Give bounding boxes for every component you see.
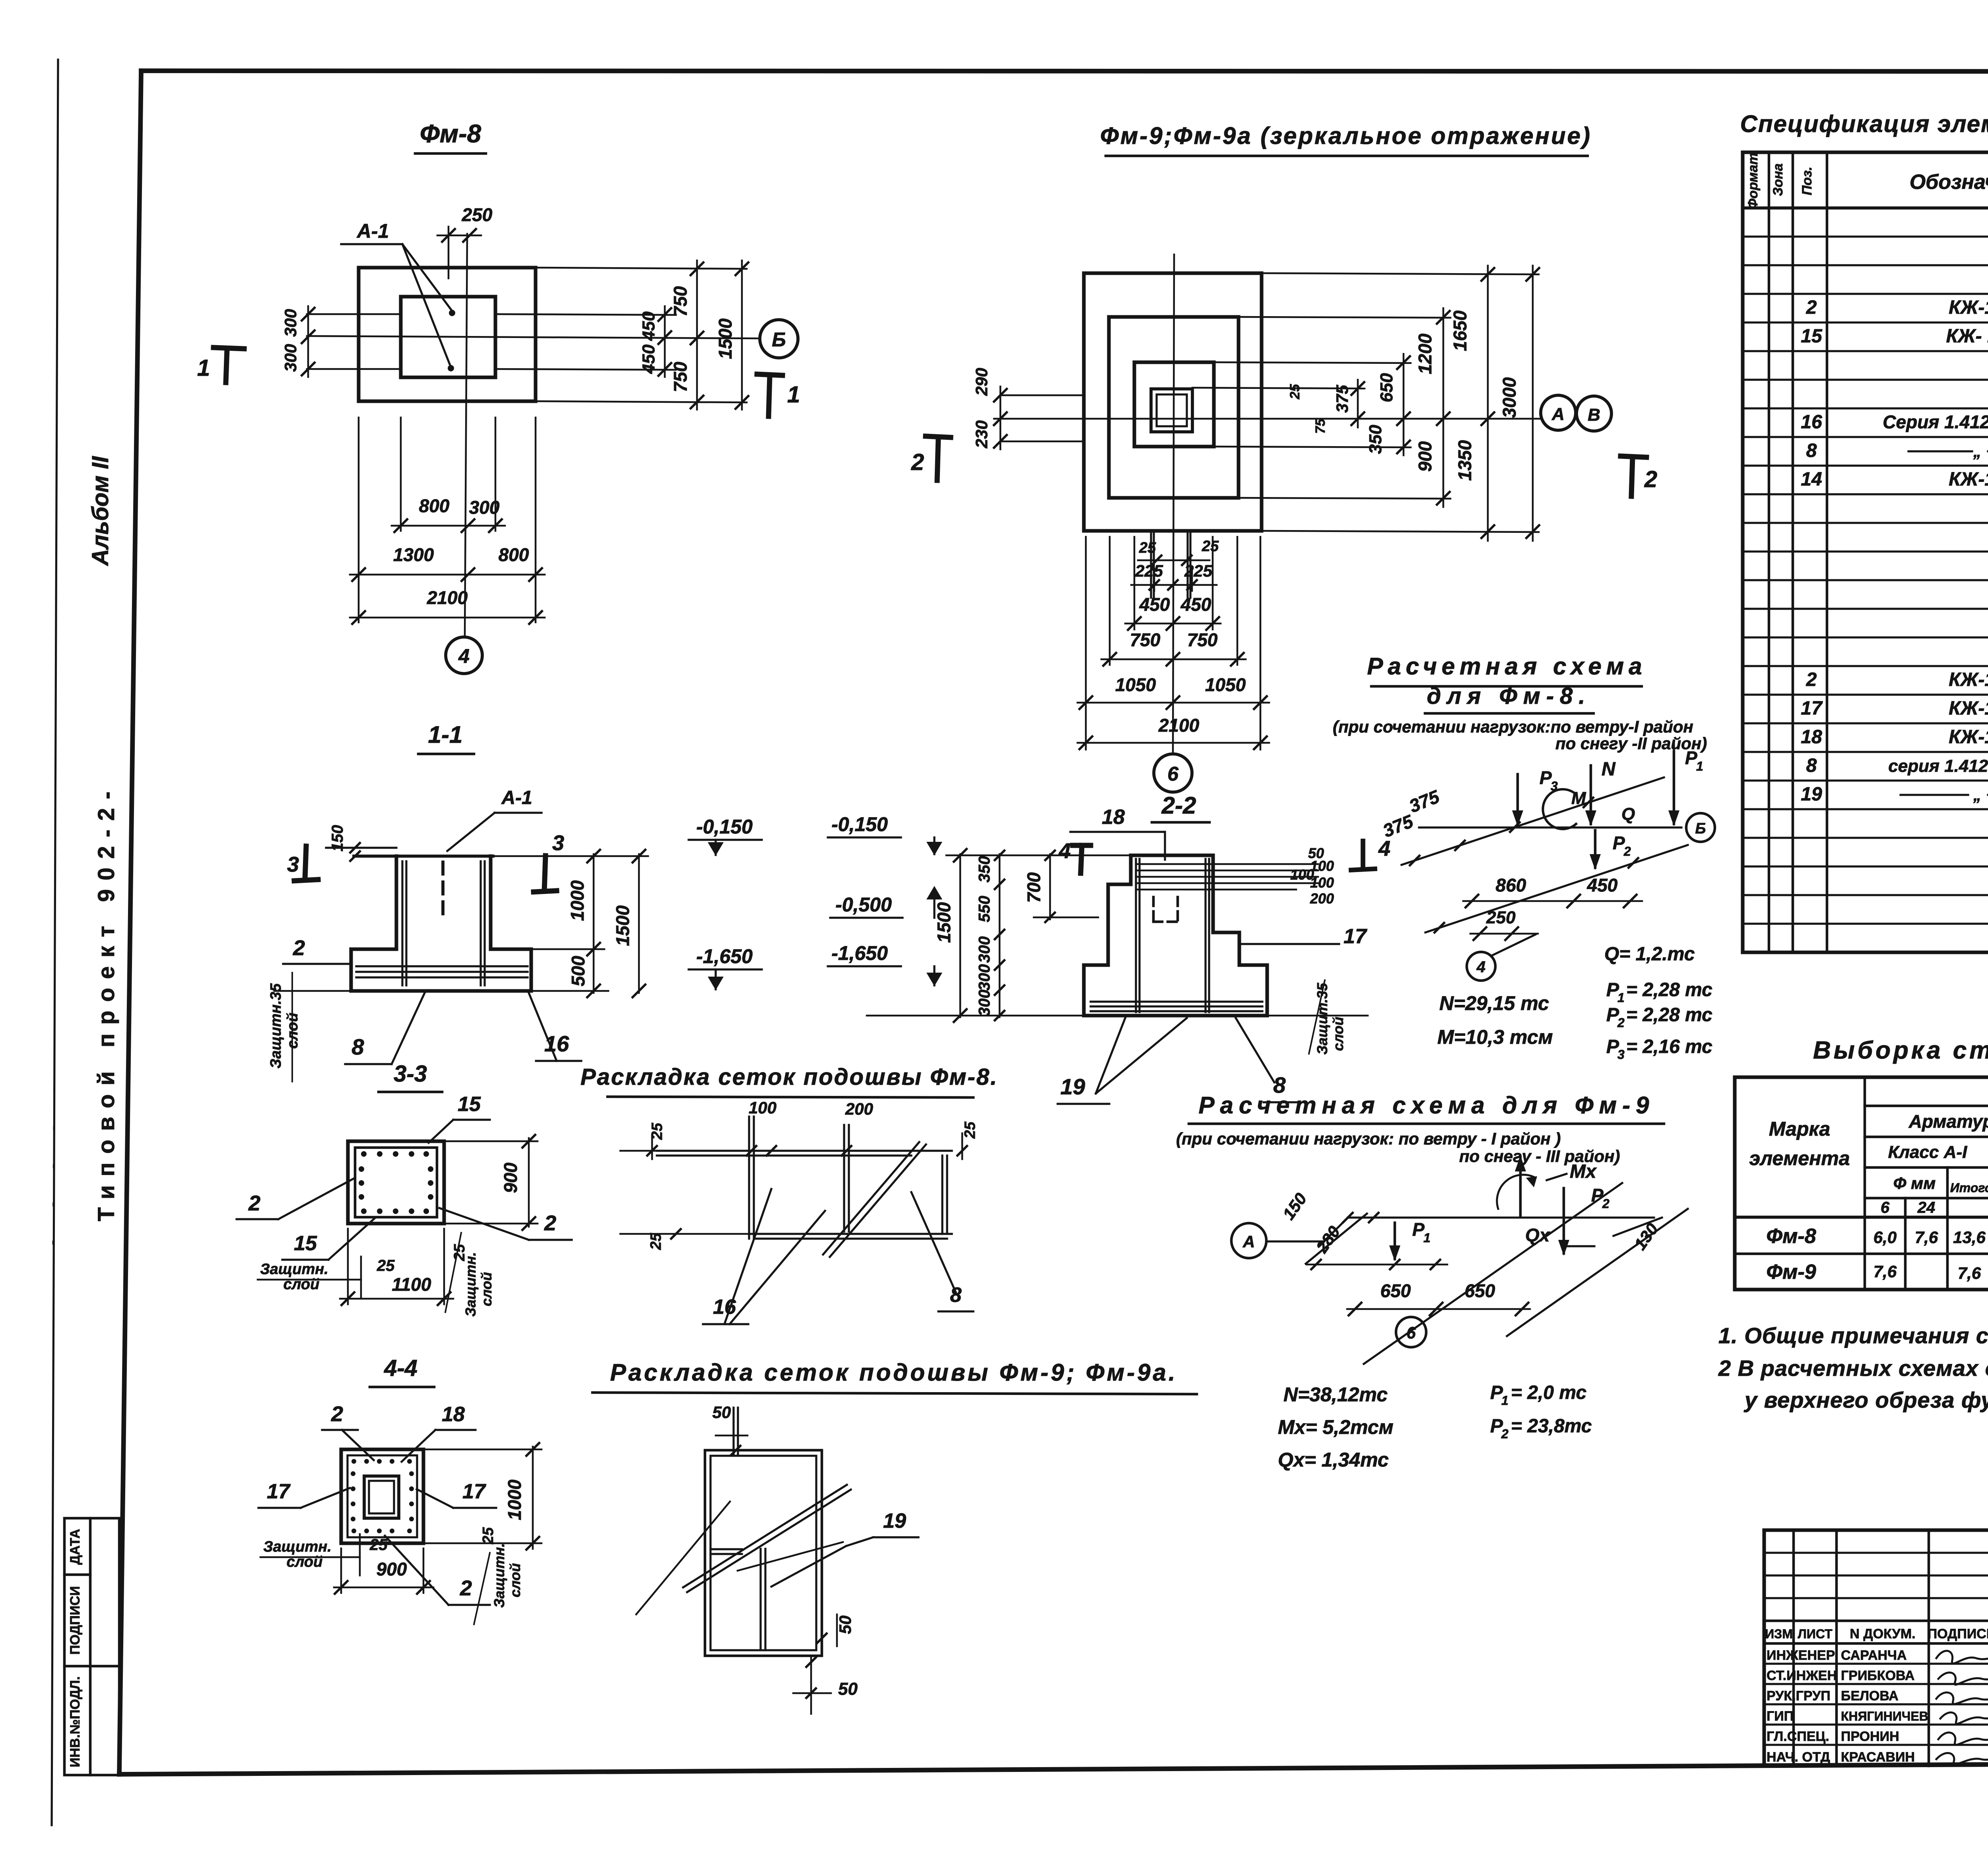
- calc scheme Fm-8 axis circle B: [1686, 813, 1715, 842]
- svg-text:1: 1: [197, 355, 210, 381]
- calc scheme Fm-8 lower diagonal: [1425, 845, 1688, 932]
- svg-text:N=29,15 тс: N=29,15 тс: [1439, 992, 1549, 1014]
- calc scheme Fm-9 force N: [1519, 1157, 1522, 1216]
- svg-text:225: 225: [1135, 561, 1163, 580]
- calc scheme Fm-9 force P1: [1394, 1223, 1396, 1259]
- Fm-8 plan outer footing rectangle: [359, 268, 536, 401]
- svg-text:ПОДПИСИ: ПОДПИСИ: [68, 1586, 83, 1655]
- calc scheme Fm-9 axis circle 6: [1396, 1317, 1426, 1347]
- svg-text:450: 450: [639, 311, 658, 341]
- svg-text:ИНВ.№ПОДЛ.: ИНВ.№ПОДЛ.: [68, 1676, 83, 1768]
- svg-text:100: 100: [1310, 874, 1334, 891]
- svg-text:450: 450: [1587, 875, 1618, 895]
- svg-text:КЖ-13: КЖ-13: [1949, 698, 1988, 719]
- calc scheme Fm-9 long diagonal through 6: [1364, 1183, 1622, 1364]
- calc scheme Fm-9 dim line under P1: [1307, 1264, 1447, 1266]
- svg-text:1-1: 1-1: [428, 721, 463, 748]
- section 1-1 base ground line: [274, 990, 351, 992]
- svg-text:КЖ-13: КЖ-13: [1949, 297, 1988, 318]
- svg-text:ПОДПИСЬ: ПОДПИСЬ: [1928, 1626, 1988, 1641]
- svg-text:Раскладка сеток подошвы Фм-9;: Раскладка сеток подошвы Фм-9; Фм-9а.: [610, 1359, 1177, 1386]
- svg-text:2-2: 2-2: [1161, 792, 1196, 819]
- svg-text:Q: Q: [1621, 804, 1635, 824]
- section 1-1 base mesh lines: [356, 965, 528, 967]
- svg-text:у верхнего обреза фундаменто: у верхнего обреза фундаментов.: [1743, 1387, 1988, 1412]
- svg-text:75: 75: [1313, 418, 1328, 434]
- section 2-2 anchor dashed lines: [1152, 897, 1155, 922]
- svg-text:Серия 1.412-1 Вып. II: Серия 1.412-1 Вып. II: [1883, 412, 1988, 432]
- svg-text:слой: слой: [478, 1272, 495, 1306]
- svg-text:3: 3: [1617, 1047, 1625, 1062]
- Fm-9 plan axis circle A: [1541, 395, 1576, 430]
- calc scheme Fm-8 axis circle 4: [1467, 952, 1495, 981]
- spec table verticals: [1741, 152, 1744, 952]
- svg-text:слой: слой: [287, 1554, 323, 1570]
- calc scheme Fm-8 force P2: [1594, 830, 1597, 868]
- inventory stamp divider horizontal 2: [64, 1665, 119, 1668]
- Fm-9 plan dim row 750 750: [1101, 658, 1246, 660]
- mesh layout Fm-9 main diagonal double: [683, 1485, 847, 1587]
- svg-text:800: 800: [419, 495, 450, 516]
- svg-text:P: P: [1613, 833, 1625, 853]
- svg-text:2: 2: [248, 1191, 260, 1215]
- calc scheme Fm-8 upper diagonal: [1402, 777, 1664, 865]
- svg-text:4: 4: [1476, 958, 1485, 976]
- section 3-3 outer square: [348, 1141, 444, 1224]
- svg-text:= 2,16 тс: = 2,16 тс: [1626, 1036, 1712, 1057]
- svg-text:N ДОКУМ.: N ДОКУМ.: [1850, 1626, 1915, 1641]
- svg-text:1: 1: [1501, 1393, 1508, 1408]
- svg-text:900: 900: [377, 1559, 407, 1579]
- section 2-2 top mesh lines: [1137, 863, 1318, 865]
- svg-text:14: 14: [1801, 469, 1822, 490]
- Fm-9 plan axis circle 6: [1154, 754, 1192, 792]
- steel table verticals: [1864, 1077, 1866, 1290]
- Fm-9 plan dim line 1200 900: [1442, 308, 1444, 507]
- svg-text:17: 17: [1801, 698, 1823, 719]
- svg-text:750: 750: [1130, 629, 1161, 650]
- svg-text:КЖ- 13: КЖ- 13: [1946, 326, 1988, 347]
- inventory stamp box: [64, 1518, 119, 1775]
- Fm-9 plan dim line 650 350: [1403, 354, 1405, 455]
- mesh layout Fm-9 thin diagonal lower: [738, 1542, 843, 1571]
- mesh layout Fm-8 right bar: [941, 1156, 943, 1234]
- section 4-4 dim 1000: [532, 1447, 534, 1549]
- title block signature row lines: [1764, 1663, 1988, 1665]
- section 1-1 ground line left: [326, 847, 396, 849]
- svg-text:18: 18: [1801, 726, 1822, 748]
- mesh layout Fm-8 bottom chord double line: [749, 1233, 952, 1235]
- Fm-9 plan mesh bars below plan: [1150, 531, 1152, 598]
- svg-text:300: 300: [976, 990, 993, 1016]
- Fm-8 plan top dim 250: [437, 235, 481, 237]
- svg-text:1: 1: [1617, 991, 1625, 1005]
- section 2-2 dim chain 350 550 300 300 300: [999, 854, 1001, 1017]
- svg-text:слой: слой: [507, 1563, 523, 1597]
- svg-text:19: 19: [1060, 1074, 1085, 1099]
- svg-text:Фм-8: Фм-8: [1766, 1225, 1816, 1248]
- svg-text:1: 1: [1696, 759, 1703, 773]
- section 2-2 dim line 1500: [959, 854, 961, 1017]
- svg-text:16: 16: [1801, 412, 1822, 433]
- svg-text:750: 750: [670, 361, 691, 392]
- svg-text:НАЧ. ОТД: НАЧ. ОТД: [1767, 1750, 1830, 1765]
- svg-text:50: 50: [836, 1616, 854, 1634]
- section 3-3 inner square: [355, 1148, 437, 1217]
- svg-text:Qх= 1,34тс: Qх= 1,34тс: [1278, 1449, 1389, 1471]
- svg-text:для Фм-8.: для Фм-8.: [1427, 683, 1591, 709]
- svg-text:Ф мм: Ф мм: [1893, 1174, 1936, 1193]
- svg-text:= 2,0 тс: = 2,0 тс: [1511, 1382, 1586, 1403]
- svg-text:7,6: 7,6: [1915, 1228, 1938, 1247]
- svg-text:25: 25: [1139, 540, 1156, 556]
- svg-text:В: В: [1588, 405, 1600, 425]
- svg-text:8: 8: [351, 1034, 364, 1059]
- title block signatures: [1936, 1651, 1988, 1663]
- svg-text:Марка: Марка: [1769, 1118, 1830, 1140]
- calc scheme Fm-8 moment M arc: [1543, 789, 1576, 829]
- svg-text:2: 2: [331, 1402, 343, 1426]
- svg-text:18: 18: [442, 1403, 465, 1426]
- svg-text:700: 700: [1023, 872, 1044, 903]
- svg-text:4-4: 4-4: [384, 1355, 417, 1381]
- svg-text:1: 1: [1423, 1231, 1431, 1245]
- svg-text:2: 2: [911, 449, 924, 475]
- svg-text:ГЛ.СПЕЦ.: ГЛ.СПЕЦ.: [1767, 1729, 1829, 1744]
- svg-text:2: 2: [1617, 1016, 1625, 1030]
- svg-text:-1,650: -1,650: [696, 945, 753, 967]
- svg-text:8: 8: [950, 1284, 962, 1307]
- svg-text:Фм-8: Фм-8: [420, 119, 481, 148]
- Fm-9 plan title underline: [1106, 155, 1588, 157]
- Fm-8 plan anchor extension line upper: [307, 313, 402, 315]
- Fm-8 plan anchor extension line lower: [307, 368, 402, 370]
- svg-text:N=38,12тс: N=38,12тс: [1283, 1383, 1388, 1406]
- Fm-9 plan right extension lines: [1262, 273, 1539, 274]
- svg-text:2: 2: [544, 1211, 556, 1235]
- svg-text:300: 300: [976, 964, 993, 991]
- section 2-2 dim 700: [1049, 854, 1051, 919]
- spec table bottom border: [1743, 950, 1988, 954]
- Fm-9 plan left extension lines: [1002, 394, 1084, 396]
- Fm-8 plan right extension lines: [536, 268, 747, 269]
- Fm-9 plan middle step rectangle: [1109, 317, 1239, 498]
- spec table row lines: [1743, 235, 1988, 237]
- svg-text:6: 6: [1881, 1199, 1890, 1216]
- svg-text:1000: 1000: [504, 1479, 525, 1520]
- svg-text:25: 25: [480, 1527, 497, 1544]
- svg-text:300: 300: [281, 344, 300, 372]
- section 3-3 rebar dots: [361, 1151, 367, 1157]
- svg-text:4: 4: [458, 645, 470, 667]
- svg-text:М=10,3 тсм: М=10,3 тсм: [1437, 1026, 1553, 1048]
- svg-text:БЕЛОВА: БЕЛОВА: [1841, 1688, 1899, 1703]
- section 1-1 top of column line: [354, 855, 493, 858]
- svg-text:17: 17: [1343, 925, 1367, 948]
- Fm-8 plan dim line 1500: [741, 260, 743, 410]
- svg-text:Защитн.: Защитн.: [260, 1261, 328, 1278]
- svg-text:Расчетная схема для Фм-9: Расчетная схема для Фм-9: [1198, 1092, 1654, 1119]
- mesh layout Fm-9 left small lines: [711, 1548, 742, 1550]
- svg-text:А-1: А-1: [501, 787, 532, 808]
- svg-text:650: 650: [1377, 373, 1396, 402]
- steel table outer border: [1735, 1077, 1988, 1290]
- svg-text:ЛИСТ: ЛИСТ: [1798, 1627, 1833, 1641]
- svg-text:1. Общие примечания см. на: 1. Общие примечания см. на листе КЖ-6.: [1718, 1323, 1988, 1348]
- svg-text:серия 1.412-1 Вып. II: серия 1.412-1 Вып. II: [1888, 756, 1988, 776]
- svg-text:24: 24: [1917, 1199, 1936, 1216]
- Fm-9 plan dim row 2100: [1077, 742, 1269, 744]
- mesh layout Fm-8 top chord double line: [657, 1150, 952, 1152]
- Fm-8 plan anchor leader lines: [402, 244, 452, 311]
- svg-text:ИНЖЕНЕР: ИНЖЕНЕР: [1767, 1648, 1835, 1663]
- svg-text:1650: 1650: [1450, 310, 1470, 351]
- svg-text:2: 2: [460, 1576, 472, 1600]
- svg-text:КЖ-13: КЖ-13: [1949, 726, 1988, 748]
- svg-text:2: 2: [1644, 466, 1657, 492]
- svg-text:6: 6: [1167, 763, 1179, 785]
- svg-text:2: 2: [1806, 297, 1817, 318]
- svg-text:ИЗМ: ИЗМ: [1765, 1627, 1793, 1641]
- svg-text:1100: 1100: [392, 1274, 431, 1295]
- svg-text:Б: Б: [772, 328, 786, 351]
- Fm-8 plan dim line 450 450: [664, 306, 666, 377]
- svg-text:1200: 1200: [1415, 333, 1435, 374]
- svg-text:7,6: 7,6: [1958, 1264, 1981, 1282]
- svg-text:6: 6: [1406, 1323, 1416, 1342]
- svg-text:4: 4: [1058, 839, 1071, 863]
- svg-text:= 2,28 тс: = 2,28 тс: [1626, 1004, 1712, 1026]
- calc scheme Fm-9 moment Mx arc: [1497, 1175, 1536, 1209]
- svg-text:Выборка стали на один элемент.: Выборка стали на один элемент.: [1813, 1037, 1988, 1064]
- svg-text:2: 2: [1623, 844, 1631, 859]
- sheet frame top border: [141, 71, 1988, 72]
- svg-text:500: 500: [568, 956, 588, 986]
- Fm-8 plan vertical axis: [465, 234, 467, 636]
- Fm-9 plan vertical axis: [1173, 254, 1174, 754]
- svg-text:Защитн.: Защитн.: [491, 1543, 507, 1608]
- svg-text:25: 25: [377, 1257, 395, 1274]
- svg-text:P: P: [1685, 748, 1697, 768]
- svg-text:КЖ-13: КЖ-13: [1949, 669, 1988, 690]
- svg-text:P: P: [1540, 767, 1552, 788]
- Fm-9 plan outer footing rectangle: [1084, 273, 1262, 531]
- svg-text:ГИП: ГИП: [1767, 1709, 1794, 1724]
- svg-text:„: „: [1973, 443, 1981, 460]
- svg-text:6,0: 6,0: [1873, 1228, 1897, 1247]
- mesh layout Fm-8 middle bar: [843, 1125, 845, 1231]
- Fm-8 plan title underline: [415, 152, 486, 155]
- svg-text:900: 900: [500, 1162, 521, 1193]
- svg-text:300: 300: [469, 497, 500, 518]
- perforation dashes left edge: [53, 974, 55, 1272]
- svg-text:25: 25: [962, 1121, 978, 1139]
- svg-text:ДАТА: ДАТА: [68, 1529, 83, 1565]
- Fm-8 plan column rectangle: [401, 297, 495, 377]
- section 4-4 column box inner: [369, 1481, 394, 1513]
- section 1-1 anchor dashed line: [441, 862, 445, 914]
- svg-text:А: А: [1551, 404, 1565, 424]
- steel table horizontals: [1865, 1105, 1988, 1107]
- svg-text:25: 25: [369, 1536, 388, 1554]
- svg-text:Альбом II: Альбом II: [87, 456, 113, 567]
- spec table top border: [1743, 150, 1988, 154]
- Fm-8 plan bottom extension lines: [400, 418, 402, 531]
- svg-text:3000: 3000: [1499, 377, 1520, 418]
- mesh layout Fm-8 left ext lines: [620, 1150, 657, 1152]
- Fm-9 plan column box outer: [1151, 389, 1192, 432]
- svg-text:2: 2: [1602, 1197, 1609, 1211]
- svg-text:Мх: Мх: [1570, 1161, 1597, 1182]
- svg-text:1000: 1000: [567, 880, 588, 921]
- svg-text:19: 19: [1801, 784, 1822, 805]
- section 1-1 dim line 1000 500: [593, 854, 595, 993]
- svg-text:750: 750: [670, 286, 691, 317]
- svg-text:250: 250: [1486, 908, 1516, 927]
- svg-text:8: 8: [1806, 755, 1817, 776]
- inventory stamp divider horizontal 1: [64, 1573, 90, 1576]
- Fm-8 plan horizontal axis: [307, 336, 757, 338]
- svg-text:860: 860: [1496, 875, 1526, 895]
- svg-text:Арматурная сталь ГОСТ 5781 - 7: Арматурная сталь ГОСТ 5781 - 75: [1908, 1111, 1988, 1132]
- calc scheme Fm-9 axis circle A: [1231, 1223, 1266, 1258]
- svg-text:слой: слой: [1330, 1017, 1346, 1051]
- section 2-2 flange mesh lines: [1091, 1000, 1262, 1002]
- section 1-1 column shaft left edge: [394, 856, 398, 949]
- svg-text:50: 50: [712, 1403, 731, 1422]
- svg-text:450: 450: [1139, 594, 1170, 615]
- mesh layout Fm-8 left bar: [748, 1117, 750, 1239]
- Fm-9 plan dim row 25 25: [1138, 559, 1209, 561]
- Fm-8 plan dim line 750 750: [696, 260, 698, 410]
- svg-text:1500: 1500: [715, 318, 736, 359]
- svg-text:900: 900: [1415, 441, 1435, 472]
- section 3-3 dim 900: [528, 1138, 530, 1227]
- title block vertical izm: [1792, 1530, 1795, 1766]
- svg-text:Б: Б: [1695, 820, 1706, 837]
- svg-text:Защитн.: Защитн.: [263, 1538, 332, 1555]
- calc scheme Fm-8 force P3: [1516, 774, 1519, 824]
- calc scheme Fm-9 right diagonal: [1507, 1209, 1688, 1336]
- section 1-1 rebar lines left: [401, 861, 403, 985]
- svg-text:290: 290: [972, 368, 991, 396]
- svg-text:РУК.ГРУП: РУК.ГРУП: [1767, 1688, 1831, 1703]
- svg-text:Итого: Итого: [1950, 1181, 1988, 1195]
- svg-text:Поз.: Поз.: [1800, 167, 1815, 195]
- svg-text:25: 25: [1202, 538, 1219, 555]
- Fm-9 plan dim line 3000: [1532, 266, 1534, 541]
- svg-text:650: 650: [1465, 1280, 1495, 1301]
- section 2-2 vertical rebars: [1135, 859, 1137, 1012]
- svg-text:P: P: [1412, 1219, 1425, 1240]
- calc scheme Fm-8 main axis to B: [1419, 826, 1681, 828]
- svg-text:-0,500: -0,500: [835, 894, 892, 916]
- svg-text:1500: 1500: [612, 905, 633, 946]
- calc scheme Fm-8 dim 250: [1470, 933, 1538, 935]
- svg-text:„: „: [1973, 787, 1981, 804]
- sheet frame bottom border: [119, 1762, 1988, 1774]
- svg-text:3: 3: [287, 853, 299, 876]
- section 2-2 base level line: [867, 1015, 1084, 1017]
- svg-text:КРАСАВИН: КРАСАВИН: [1841, 1750, 1915, 1765]
- svg-text:Формат: Формат: [1745, 153, 1761, 209]
- svg-text:375: 375: [1333, 385, 1351, 413]
- svg-text:2: 2: [1501, 1427, 1508, 1441]
- mesh layout Fm-9 center bar: [759, 1549, 761, 1650]
- svg-text:Фм-9;Фм-9а (зеркальное отражен: Фм-9;Фм-9а (зеркальное отражение): [1100, 122, 1592, 149]
- section 1-1 dim line 1500: [638, 854, 640, 993]
- sheet frame left border: [119, 71, 141, 1774]
- svg-text:2100: 2100: [1158, 715, 1200, 736]
- svg-text:350: 350: [976, 856, 993, 883]
- svg-text:800: 800: [499, 544, 529, 565]
- svg-text:1: 1: [787, 382, 800, 408]
- Fm-9 plan axis circle V: [1576, 396, 1611, 431]
- svg-text:ГРИБКОВА: ГРИБКОВА: [1841, 1668, 1914, 1683]
- section 2-2 title underline: [1152, 821, 1209, 824]
- Fm-9 plan upper step rectangle: [1134, 362, 1214, 447]
- svg-text:50: 50: [838, 1679, 858, 1699]
- section 1-1 extension lines right: [493, 855, 648, 857]
- svg-text:КЖ-13: КЖ-13: [1949, 469, 1988, 490]
- section 1-1 title underline: [418, 753, 474, 756]
- svg-text:18: 18: [1102, 806, 1125, 829]
- svg-text:2 В расчетных схемах даны: 2 В расчетных схемах даны нормативные на…: [1718, 1356, 1988, 1381]
- svg-text:17: 17: [462, 1480, 486, 1503]
- svg-text:Класс А-I: Класс А-I: [1888, 1142, 1967, 1162]
- Fm-8 plan left dim line: [307, 306, 309, 377]
- svg-text:15: 15: [294, 1232, 317, 1255]
- svg-text:300: 300: [281, 309, 300, 337]
- svg-text:17: 17: [267, 1480, 291, 1503]
- svg-text:= 2,28 тс: = 2,28 тс: [1626, 979, 1712, 1000]
- section 3-3 dim 1100: [340, 1298, 453, 1300]
- title block vertical list: [1835, 1530, 1838, 1766]
- calc scheme Fm-9 main axis: [1348, 1216, 1654, 1218]
- Fm-9 plan horizontal axis: [994, 418, 1540, 420]
- section 1-1 rebar lines right: [480, 861, 481, 985]
- section 4-4 column box outer: [364, 1476, 399, 1518]
- section 4-4 dim 900: [334, 1587, 433, 1589]
- svg-text:Q= 1,2.тс: Q= 1,2.тс: [1604, 944, 1695, 965]
- svg-text:= 23,8тс: = 23,8тс: [1511, 1416, 1592, 1437]
- Fm-9 plan dim row 225 225: [1131, 584, 1217, 586]
- svg-text:3-3: 3-3: [394, 1061, 427, 1087]
- svg-text:1300: 1300: [393, 544, 434, 565]
- svg-text:13,6: 13,6: [1953, 1228, 1986, 1247]
- svg-text:1500: 1500: [934, 902, 954, 943]
- Fm-9 plan dim row 1050 1050: [1077, 702, 1269, 704]
- svg-text:М: М: [1571, 789, 1586, 808]
- spec table header bottom line: [1743, 206, 1988, 210]
- calc scheme Fm-9 force P2: [1563, 1188, 1565, 1253]
- svg-text:450: 450: [639, 344, 658, 374]
- Fm-9 plan column box inner: [1157, 394, 1187, 426]
- section 4-4 outer square: [341, 1449, 423, 1543]
- mesh layout Fm-8 diagonal leader double: [823, 1142, 919, 1255]
- svg-text:по снегу -II район): по снегу -II район): [1555, 734, 1707, 753]
- svg-text:Спецификация элементов монолит: Спецификация элементов монолитной констр…: [1740, 111, 1988, 137]
- section 1-1 column shaft right edge: [489, 856, 492, 949]
- svg-text:230: 230: [972, 420, 991, 449]
- svg-text:350: 350: [1366, 425, 1385, 454]
- svg-text:16: 16: [544, 1031, 569, 1056]
- Fm-9 plan dim line 375 75 25: [1357, 380, 1359, 427]
- svg-text:200: 200: [845, 1099, 873, 1118]
- Fm-8 plan dim row 2100: [350, 617, 545, 619]
- svg-text:-1,650: -1,650: [831, 942, 888, 964]
- inventory stamp divider vertical: [89, 1518, 92, 1775]
